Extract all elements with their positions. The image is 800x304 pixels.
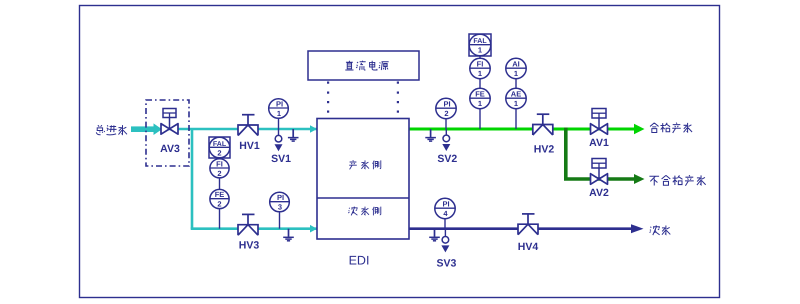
valve AV2 (591, 159, 608, 185)
svg-text:HV3: HV3 (239, 240, 260, 252)
valve HV4 (518, 214, 538, 235)
svg-text:AV3: AV3 (160, 143, 180, 155)
wire dotted link left (327, 82, 329, 113)
ground symbol (product line) (425, 129, 436, 141)
svg-text:1: 1 (514, 99, 518, 108)
valve HV1 (238, 115, 258, 136)
wire bottom feed line (191, 227, 317, 230)
wire arrow into EDI top (310, 125, 317, 133)
svg-text:1: 1 (478, 69, 482, 78)
valve HV3 (238, 214, 258, 235)
svg-text:EDI: EDI (349, 254, 370, 268)
wire product line (green) (409, 128, 635, 131)
svg-text:3: 3 (278, 203, 282, 212)
DC power supply box 直流电源 (308, 51, 419, 80)
instrument AI1 (506, 58, 526, 78)
wire stem FI1-FE1 (479, 79, 481, 89)
svg-text:2: 2 (444, 109, 448, 118)
wire reject branch (dark green) (566, 128, 635, 180)
wire main feed line (162, 128, 317, 131)
instrument AE1 (506, 88, 526, 108)
EDI module box (317, 119, 409, 240)
svg-text:PI: PI (443, 100, 450, 109)
ground symbol (bottom feed line) (283, 229, 294, 241)
svg-text:SV3: SV3 (436, 258, 456, 270)
wire inlet arrow (131, 123, 162, 135)
label 产水侧 (349, 160, 381, 169)
wire concentrate line (navy) (409, 227, 632, 230)
svg-text:AI: AI (512, 60, 520, 69)
ground symbol (concentrate line) (429, 229, 440, 241)
valve HV2 (533, 114, 553, 135)
label 浓水侧 (348, 207, 381, 216)
label 合格产水 (650, 123, 692, 133)
svg-text:FI: FI (477, 60, 484, 69)
wire stem FI2-FE2 (219, 178, 221, 190)
instrument FE2 (210, 189, 229, 208)
label 不合格产水 (649, 175, 705, 186)
svg-text:AV1: AV1 (589, 137, 609, 149)
wire stem AE1 to line (515, 109, 517, 129)
instrument FI2 (210, 159, 229, 178)
svg-text:HV1: HV1 (239, 140, 260, 152)
instrument FE1 (470, 88, 490, 108)
svg-text:2: 2 (217, 169, 221, 178)
valve SV1 (275, 129, 283, 151)
wire arrow into EDI bottom (310, 225, 317, 233)
label 总进水 (96, 125, 127, 135)
AV3 enclosure dashed box (146, 100, 189, 166)
svg-text:1: 1 (478, 99, 482, 108)
ground symbol (main line) (288, 129, 299, 141)
svg-text:1: 1 (478, 46, 482, 55)
svg-text:2: 2 (217, 148, 221, 157)
wire stem AI1-AE1 (515, 79, 517, 89)
svg-text:FI: FI (216, 159, 223, 168)
svg-text:PI: PI (277, 193, 284, 202)
valve SV2 (442, 129, 450, 151)
svg-text:1: 1 (277, 109, 281, 118)
svg-text:AV2: AV2 (589, 187, 609, 199)
svg-text:2: 2 (217, 200, 221, 209)
valve SV3 (441, 229, 449, 253)
svg-text:SV2: SV2 (437, 153, 457, 165)
instrument PI4 (435, 198, 455, 228)
svg-text:PI: PI (442, 200, 449, 209)
instrument PI3 (270, 192, 290, 229)
svg-text:FAL: FAL (213, 141, 227, 148)
instrument PI2 (436, 98, 456, 129)
label 浓水 (650, 225, 671, 235)
svg-text:HV2: HV2 (534, 144, 555, 156)
wire dotted link right (397, 82, 399, 113)
instrument FI1 (470, 58, 490, 78)
instrument PI1 (269, 99, 289, 129)
svg-text:PI: PI (276, 100, 283, 109)
svg-text:1: 1 (514, 69, 518, 78)
wire stem FE2 to line (219, 209, 221, 229)
svg-text:HV4: HV4 (518, 241, 539, 253)
svg-text:FAL: FAL (473, 38, 487, 45)
valve AV3 (161, 109, 178, 135)
valve AV1 (591, 109, 608, 135)
instrument FAL2 (209, 137, 230, 158)
svg-text:SV1: SV1 (271, 153, 291, 165)
svg-text:FE: FE (215, 190, 225, 199)
wire branch vertical (191, 129, 194, 229)
wire stem FAL1-FI1 (479, 56, 481, 58)
svg-text:FE: FE (475, 90, 485, 99)
wire stem FE1 to line (479, 109, 481, 129)
svg-text:AE: AE (511, 90, 521, 99)
instrument FAL1 (469, 34, 491, 56)
